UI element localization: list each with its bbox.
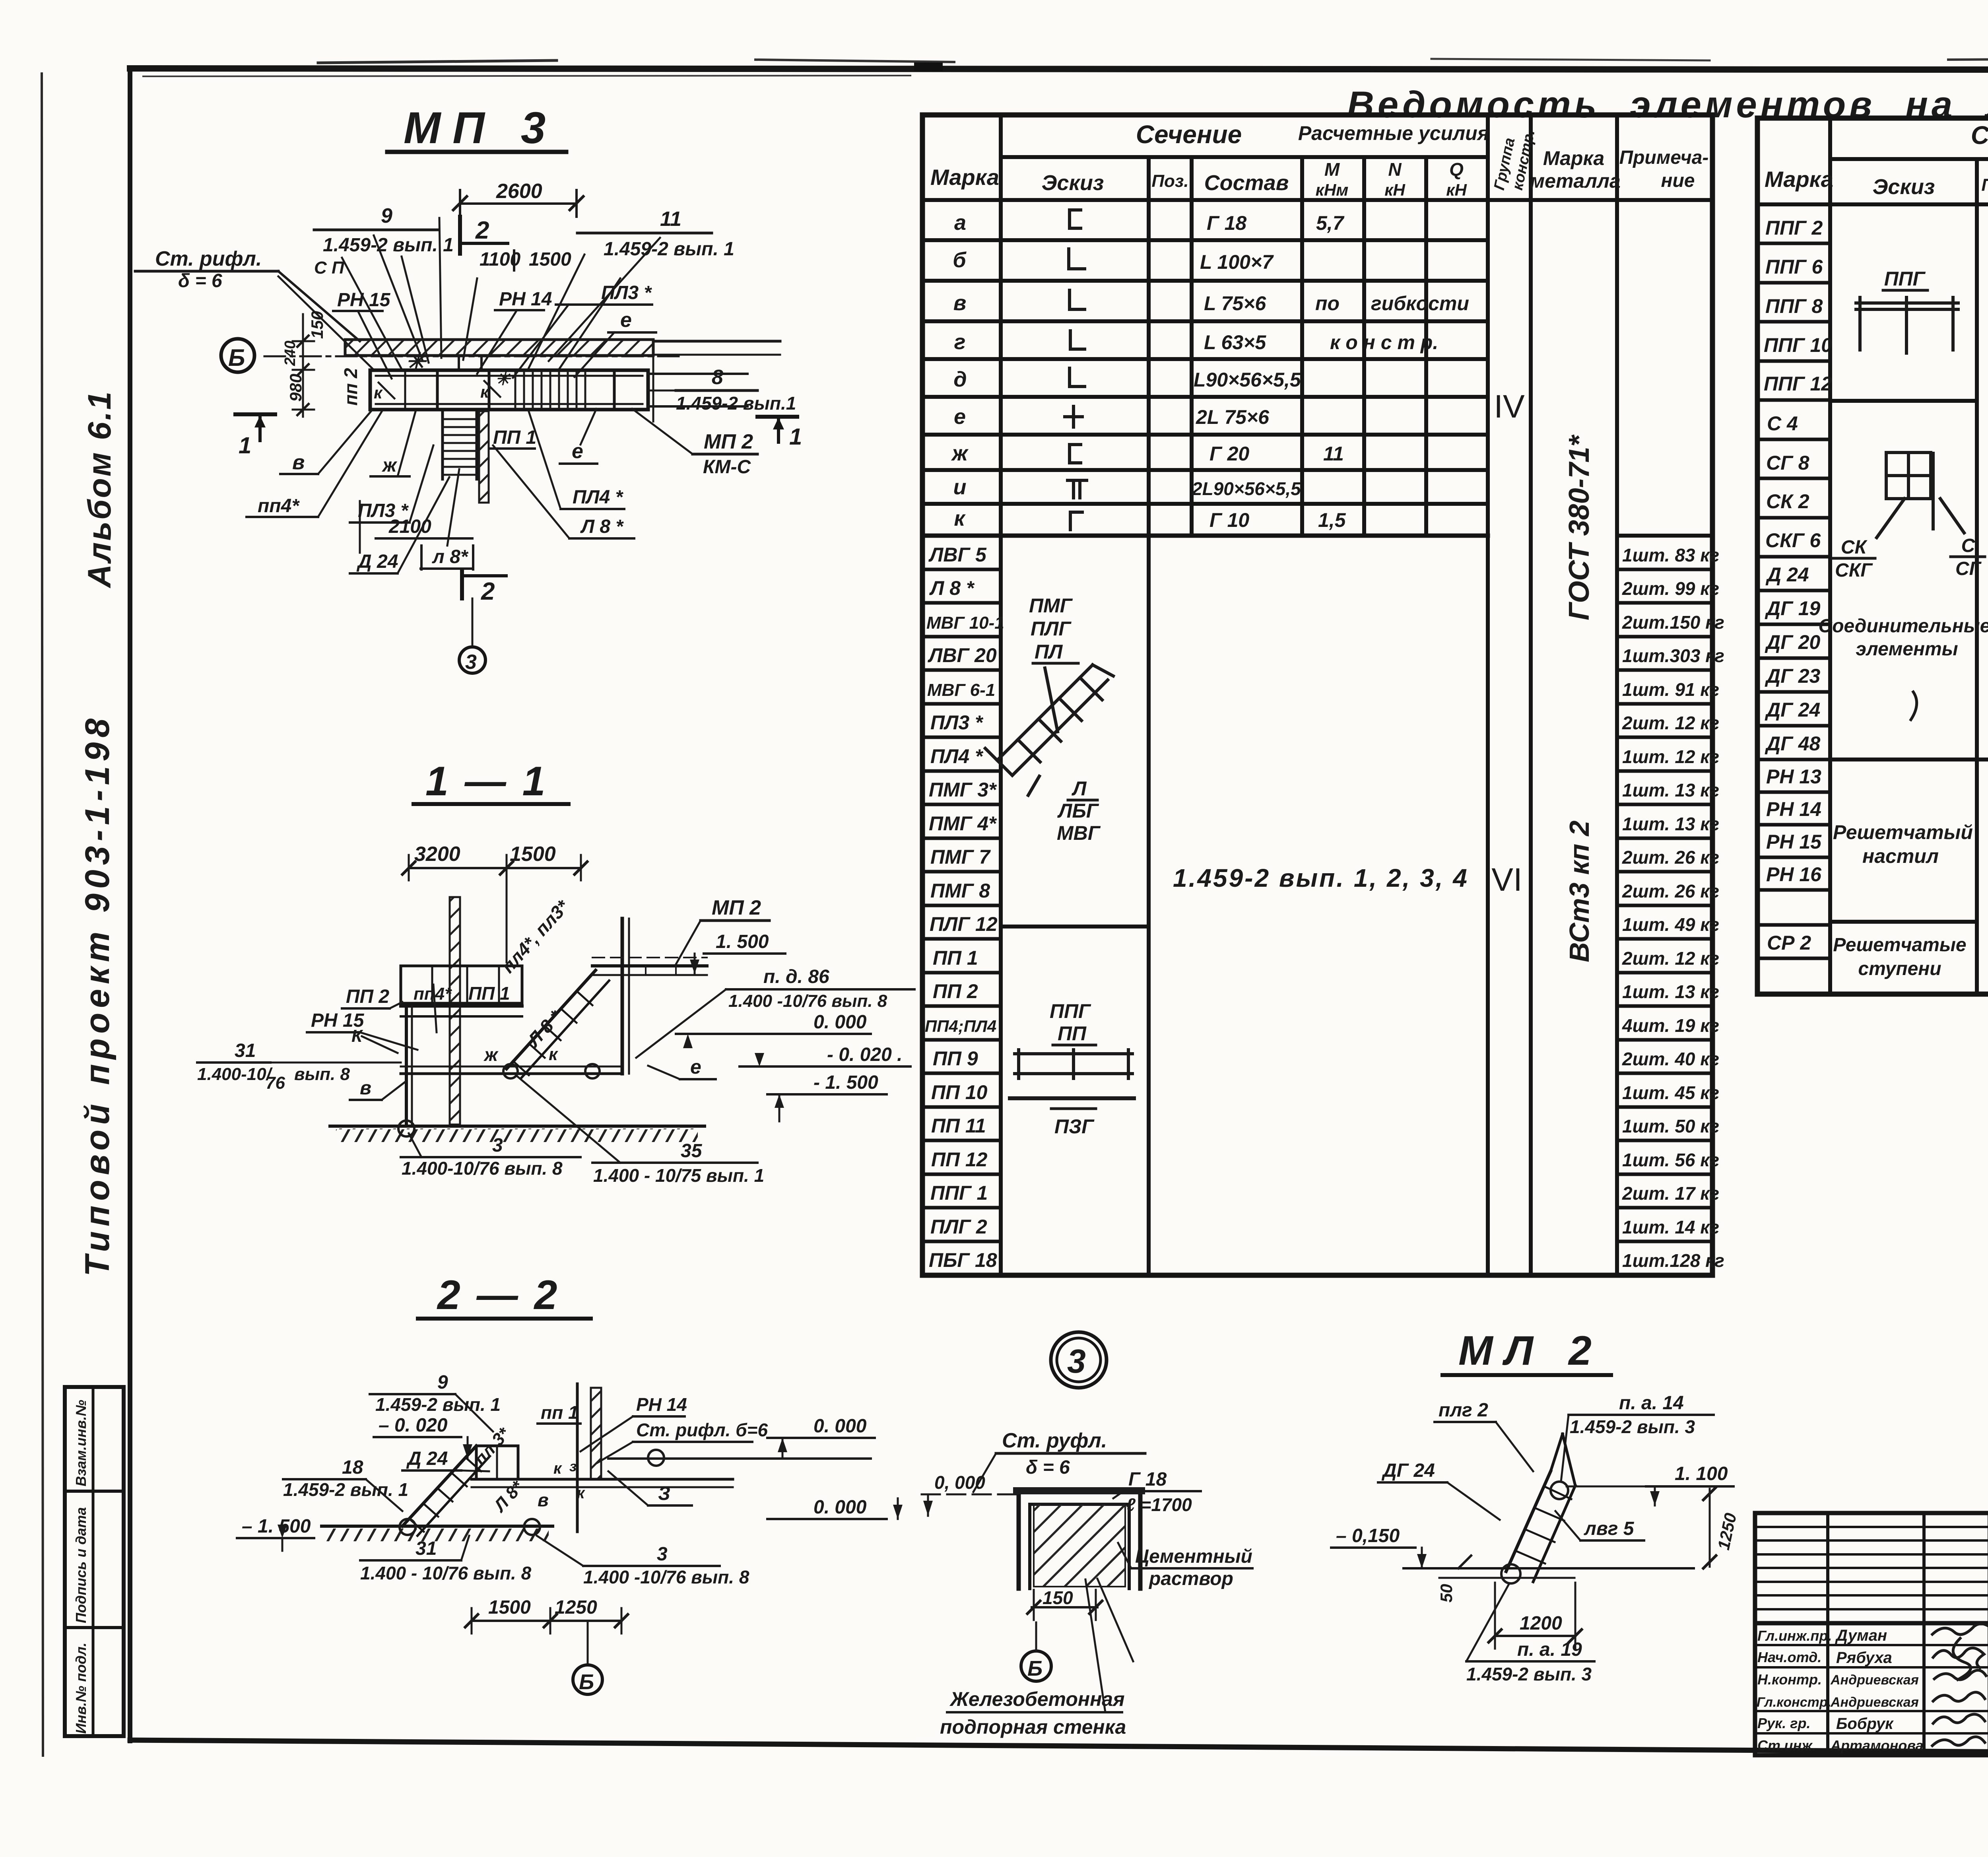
svg-text:вып. 8: вып. 8 [294,1064,350,1084]
s11 ground line [330,1125,705,1128]
svg-text:ДГ 23: ДГ 23 [1765,665,1820,687]
svg-text:L 100×7: L 100×7 [1200,251,1274,273]
MP3 band notch box [459,357,481,371]
svg-text:З: З [658,1483,670,1504]
svg-text:настил: настил [1862,845,1939,867]
svg-text:ПМГ 8: ПМГ 8 [930,880,990,902]
sheet frame bottom border [130,1740,1988,1755]
svg-text:Поз.: Поз. [1151,171,1188,191]
svg-text:ЛВГ 20: ЛВГ 20 [928,644,997,666]
ML2 base line [1404,1567,1694,1570]
svg-text:Рябуха: Рябуха [1836,1649,1892,1667]
svg-text:ДГ 48: ДГ 48 [1765,732,1820,755]
titleblock thin rows left [1755,1527,1988,1733]
svg-text:ПП 2: ПП 2 [346,986,389,1007]
svg-text:ПЛ3 *: ПЛ3 * [930,711,984,734]
detail B top plate thick [1013,1487,1145,1494]
svg-text:СГ 8: СГ 8 [1766,452,1809,474]
table2 marka column row lines [1757,243,1830,958]
svg-text:VI: VI [1491,862,1522,898]
svg-text:50: 50 [1437,1584,1456,1603]
svg-text:Инв.№ подл.: Инв.№ подл. [73,1643,89,1734]
svg-text:3: 3 [1067,1342,1086,1380]
svg-text:1200: 1200 [1520,1613,1562,1634]
titleblock signatures [1932,1624,1988,1746]
svg-text:ППГ 12: ППГ 12 [1764,373,1832,395]
detail B circle B [1021,1651,1051,1681]
MP3 axis circle B [221,339,254,372]
svg-text:ПБГ 18: ПБГ 18 [929,1249,997,1271]
svg-text:2шт. 26 кг: 2шт. 26 кг [1622,881,1719,901]
svg-text:МВГ: МВГ [1057,822,1101,844]
svg-text:по: по [1315,292,1340,315]
svg-text:ППГ: ППГ [1050,1000,1091,1022]
table2 sketch SK square [1877,453,1964,538]
svg-text:в: в [538,1490,549,1510]
svg-text:Рук. гр.: Рук. гр. [1757,1715,1811,1731]
svg-text:б: б [953,248,967,272]
svg-text:✳: ✳ [495,369,511,389]
svg-text:8: 8 [712,366,723,389]
svg-text:Взам.инв.№: Взам.инв.№ [73,1400,89,1486]
svg-text:2100: 2100 [388,516,431,537]
svg-text:Бобрук: Бобрук [1836,1715,1894,1733]
svg-text:Марка: Марка [1765,167,1833,192]
svg-text:3: 3 [657,1544,668,1565]
MP3 platform right extension [648,373,747,375]
svg-text:РН 14: РН 14 [499,289,552,310]
svg-text:ПП 1: ПП 1 [493,427,536,448]
svg-text:п. а. 14: п. а. 14 [1619,1393,1684,1414]
svg-text:Л: Л [1072,777,1087,800]
svg-text:Решетчатые: Решетчатые [1833,934,1966,956]
svg-text:2шт. 40 кг: 2шт. 40 кг [1622,1049,1719,1069]
svg-text:1шт. 13 кг: 1шт. 13 кг [1622,814,1719,834]
svg-text:СКГ 6: СКГ 6 [1765,529,1821,552]
titleblock signer role labels [1757,1628,1832,1754]
MP3 axis circle 3 [472,598,474,647]
svg-text:к: к [553,1460,562,1477]
MP3 stair treads plan [515,372,585,408]
svg-text:ДГ 24: ДГ 24 [1765,699,1820,721]
svg-text:РН 14: РН 14 [1766,798,1821,820]
svg-text:к: к [549,1045,559,1064]
svg-text:150: 150 [308,311,326,339]
table1 usiliya values [1315,212,1469,531]
svg-text:– 0. 020: – 0. 020 [379,1415,448,1436]
svg-text:0. 000: 0. 000 [813,1416,867,1437]
svg-text:1шт. 13 кг: 1шт. 13 кг [1622,780,1719,800]
svg-text:L 75×6: L 75×6 [1204,292,1266,315]
table1 sostav column texts [1192,212,1301,531]
svg-text:л 8*: л 8* [432,546,469,567]
svg-text:пп4*: пп4* [258,495,300,517]
svg-text:Г 10: Г 10 [1209,509,1249,531]
svg-text:СК: СК [1841,537,1868,558]
svg-text:1шт. 49 кг: 1шт. 49 кг [1622,914,1719,935]
svg-text:подпорная стенка: подпорная стенка [940,1716,1126,1738]
svg-text:1.459-2 вып. 3: 1.459-2 вып. 3 [1466,1664,1592,1684]
table2 marka labels [1764,217,1832,954]
svg-text:3: 3 [492,1135,503,1156]
svg-text:5,7: 5,7 [1316,212,1345,234]
svg-text:1.459-2 вып. 1, 2, 3, 4: 1.459-2 вып. 1, 2, 3, 4 [1173,864,1469,892]
table1 lower marka labels [925,544,1004,1271]
svg-text:2L90×56×5,5: 2L90×56×5,5 [1192,478,1301,499]
svg-text:кНм: кНм [1316,181,1349,199]
svg-text:ППГ 8: ППГ 8 [1765,295,1823,317]
svg-text:2шт. 12 кг: 2шт. 12 кг [1622,713,1719,733]
svg-text:ПМГ 3*: ПМГ 3* [929,779,997,801]
left bottom stamp table [65,1387,124,1736]
svg-text:Артамонова: Артамонова [1830,1737,1924,1754]
svg-text:0. 000: 0. 000 [813,1497,867,1518]
svg-text:11: 11 [660,208,681,231]
svg-text:Г 18: Г 18 [1207,212,1246,234]
svg-text:Марка: Марка [930,165,999,190]
s22 stair diagonal band [402,1446,490,1536]
svg-text:ПП 2: ПП 2 [933,980,978,1002]
svg-text:РН 13: РН 13 [1766,765,1821,788]
sheet frame top border [130,68,1988,70]
svg-text:раствор: раствор [1148,1568,1233,1589]
svg-text:Д 24: Д 24 [406,1448,448,1469]
titleblock signer names [1830,1627,1924,1754]
MP3 section mark 1 left [235,412,275,416]
svg-text:Подпись и дата: Подпись и дата [73,1507,89,1623]
svg-text:Ст. руфл.: Ст. руфл. [1002,1429,1107,1452]
svg-text:ДГ 19: ДГ 19 [1765,597,1820,620]
svg-text:МП 2: МП 2 [704,430,753,453]
s22 anchor circles [400,1519,415,1535]
svg-text:ж: ж [381,455,398,476]
svg-text:д: д [953,367,967,391]
svg-text:ДГ 24: ДГ 24 [1381,1460,1435,1481]
svg-text:Типовой проект 903-1-198: Типовой проект 903-1-198 [78,714,116,1276]
svg-text:Состав: Состав [1204,171,1289,195]
svg-text:ПП: ПП [1058,1022,1087,1045]
svg-text:к: к [954,507,966,530]
svg-text:ж: ж [951,441,969,465]
sheet frame left border [128,68,132,1741]
svg-text:е: е [620,309,632,332]
svg-text:1шт. 83 кг: 1шт. 83 кг [1622,545,1719,565]
s22 axis circle B [587,1621,589,1665]
svg-text:Д 24: Д 24 [1765,563,1809,586]
svg-text:МП 3: МП 3 [404,103,557,153]
svg-text:ПЛГ 12: ПЛГ 12 [930,913,998,935]
svg-text:Б: Б [579,1670,594,1694]
table1 header labels [930,120,1708,199]
svg-text:ППГ 2: ППГ 2 [1765,217,1823,239]
svg-text:МЛ 2: МЛ 2 [1458,1328,1604,1374]
svg-text:Сечение: Сечение [1136,120,1242,149]
s22 right hatched wall [591,1388,601,1479]
svg-text:1шт. 91 кг: 1шт. 91 кг [1622,679,1719,700]
MP3 axis dash-dot line [264,355,681,357]
svg-text:е: е [954,405,966,429]
svg-text:2L 75×6: 2L 75×6 [1196,406,1270,428]
svg-text:гибкости: гибкости [1371,292,1469,315]
svg-text:1.459-2 вып. 1: 1.459-2 вып. 1 [283,1479,408,1500]
svg-text:2шт. 12 кг: 2шт. 12 кг [1622,948,1719,969]
svg-text:1.459-2 вып. 3: 1.459-2 вып. 3 [1570,1416,1695,1437]
svg-text:ПЛ3 *: ПЛ3 * [601,282,652,303]
svg-text:0, 000: 0, 000 [934,1472,985,1493]
svg-text:1.400 -10/76 вып. 8: 1.400 -10/76 вып. 8 [583,1567,749,1587]
table1 sketch platform drawing [1010,1050,1134,1098]
svg-text:ПМГ 4*: ПМГ 4* [929,812,997,835]
svg-text:Думан: Думан [1835,1627,1887,1644]
svg-text:и: и [953,475,967,499]
MP3 band extension lines [653,340,780,343]
svg-text:Б: Б [1027,1657,1043,1680]
svg-text:1шт. 14 кг: 1шт. 14 кг [1622,1217,1719,1237]
svg-text:L 63×5: L 63×5 [1204,331,1266,354]
svg-text:Расчетные усилия: Расчетные усилия [1298,122,1489,144]
table1 grid [922,115,1712,1275]
svg-text:ПП 11: ПП 11 [931,1115,986,1137]
svg-text:1500: 1500 [529,249,571,270]
svg-text:ППГ 6: ППГ 6 [1765,256,1823,278]
MP3 section mark 2 bottom [460,572,464,598]
svg-text:Q: Q [1449,159,1464,180]
svg-text:31: 31 [415,1538,437,1559]
table1 sketch diagonal ladder [985,665,1113,795]
svg-text:2шт.150 кг: 2шт.150 кг [1622,612,1724,633]
node circle 3 double [1051,1332,1107,1388]
svg-text:- 1. 500: - 1. 500 [813,1072,878,1093]
svg-text:ПЛГ 2: ПЛГ 2 [930,1216,987,1238]
svg-text:п. д. 86: п. д. 86 [763,966,829,987]
svg-text:240: 240 [282,341,299,366]
svg-text:Ст. рифл. б=6: Ст. рифл. б=6 [636,1420,768,1440]
svg-text:з: з [569,1458,577,1474]
svg-text:Нач.отд.: Нач.отд. [1757,1649,1821,1665]
svg-text:150: 150 [1043,1587,1073,1608]
svg-text:1. 500: 1. 500 [716,931,769,952]
s11 left deck beams [401,1004,522,1008]
svg-text:1шт. 13 кг: 1шт. 13 кг [1622,981,1719,1002]
svg-text:РН 14: РН 14 [636,1394,687,1415]
svg-text:ПП 12: ПП 12 [931,1148,988,1171]
svg-text:Г 18: Г 18 [1128,1469,1167,1490]
svg-text:1.459-2 вып.1: 1.459-2 вып.1 [676,393,796,414]
svg-text:лвг 5: лвг 5 [1584,1518,1635,1539]
svg-text:1шт. 45 кг: 1шт. 45 кг [1622,1082,1719,1103]
table1 sketch platform labels [1050,1000,1095,1138]
svg-text:С: С [1961,535,1976,556]
svg-text:δ = 6: δ = 6 [178,270,222,291]
svg-text:- 0. 020 .: - 0. 020 . [827,1044,902,1065]
svg-text:L90×56×5,5: L90×56×5,5 [1194,369,1301,391]
left margin thin line [42,74,43,1756]
svg-text:ж: ж [483,1044,499,1065]
table1 upper marka letters [951,211,969,530]
MP3 hatched wall below [479,411,489,503]
svg-text:ПП 9: ПП 9 [933,1047,978,1070]
svg-text:1. 100: 1. 100 [1675,1463,1728,1484]
svg-text:а: а [954,211,966,235]
svg-text:Марка: Марка [1543,147,1604,169]
svg-text:1.400 -10/76 вып. 8: 1.400 -10/76 вып. 8 [728,991,887,1011]
svg-text:ЛВГ 5: ЛВГ 5 [928,544,987,566]
svg-text:1.400 - 10/75 вып. 1: 1.400 - 10/75 вып. 1 [593,1165,764,1186]
svg-text:С 4: С 4 [1767,412,1798,435]
s11 floor line mid [401,1072,622,1075]
svg-text:элементы: элементы [1856,639,1958,660]
svg-text:в: в [953,291,967,315]
svg-text:ПЛ4 *: ПЛ4 * [573,487,624,508]
svg-text:1шт. 12 кг: 1шт. 12 кг [1622,746,1719,767]
svg-text:1: 1 [239,433,251,458]
svg-text:ПМГ 7: ПМГ 7 [930,846,991,868]
s22 ground line [322,1525,553,1528]
svg-text:МВГ 10-1: МВГ 10-1 [926,613,1004,633]
svg-text:МВГ 6-1: МВГ 6-1 [927,680,995,700]
table1 sketch ladder labels [1029,594,1101,844]
table1 marka column row lines [922,569,1001,1241]
svg-text:пп 1: пп 1 [541,1402,579,1423]
svg-text:ПП4;ПЛ4: ПП4;ПЛ4 [925,1017,996,1035]
svg-text:Ст. рифл.: Ст. рифл. [155,247,262,270]
svg-text:ние: ние [1661,170,1695,191]
svg-text:ПЛ4 *: ПЛ4 * [930,745,984,767]
MP3 hatched wall band [345,340,653,355]
table2 grid [1757,118,1988,994]
svg-text:СР 2: СР 2 [1767,932,1811,954]
s11 anchor circles [398,1121,414,1136]
svg-text:1.400-10/: 1.400-10/ [197,1064,273,1084]
svg-text:Гл.констр.: Гл.констр. [1757,1695,1831,1710]
svg-text:Эскиз: Эскиз [1873,175,1935,199]
ML2 stair flight [1506,1434,1575,1582]
svg-text:1шт.303 кг: 1шт.303 кг [1622,645,1724,666]
svg-text:ПМГ: ПМГ [1029,594,1073,617]
svg-text:31: 31 [235,1040,256,1061]
svg-text:2шт. 17 кг: 2шт. 17 кг [1622,1183,1719,1204]
s22 deck line [472,1478,733,1481]
svg-text:1 — 1: 1 — 1 [425,758,547,804]
svg-text:δ = 6: δ = 6 [1026,1457,1070,1478]
svg-text:9: 9 [381,204,392,227]
svg-text:РН 15: РН 15 [1766,831,1822,853]
table1 prim values [1622,545,1724,1271]
svg-text:1,5: 1,5 [1318,509,1346,531]
s11 center hatched column [450,897,460,1125]
svg-text:КМ-С: КМ-С [703,456,751,478]
top border smudges [318,60,557,63]
svg-text:2600: 2600 [496,180,542,203]
svg-text:ППГ: ППГ [1884,268,1926,290]
svg-text:1.459-2 вып. 1: 1.459-2 вып. 1 [375,1394,501,1415]
MP3 platform outline [370,370,648,410]
svg-text:✳: ✳ [406,348,427,375]
svg-text:ПП 1: ПП 1 [933,947,978,969]
svg-text:9: 9 [437,1372,448,1393]
s11 right upper deck [592,964,707,967]
table2 header labels [1765,121,1988,203]
svg-text:ПЗГ: ПЗГ [1054,1115,1095,1138]
svg-text:1шт.128 кг: 1шт.128 кг [1622,1250,1724,1271]
s11 stair diagonal band [507,970,609,1078]
svg-text:1.459-2 вып. 1: 1.459-2 вып. 1 [604,239,734,260]
svg-text:Поз.: Поз. [1981,175,1988,195]
svg-text:пп 2: пп 2 [340,368,361,406]
svg-text:в: в [292,451,305,474]
svg-text:ППГ 1: ППГ 1 [930,1182,988,1204]
MP3 left dim chain [302,314,304,417]
MP3 section mark 1 right [757,415,797,419]
svg-text:п. а. 19: п. а. 19 [1517,1639,1582,1660]
svg-text:Примеча-: Примеча- [1619,147,1709,168]
titleblock main box [1755,1513,1988,1755]
ML2 bottom circle [1501,1564,1520,1583]
svg-text:1: 1 [789,424,802,450]
svg-text:2 — 2: 2 — 2 [437,1272,559,1318]
svg-text:Б: Б [228,344,245,371]
svg-text:кН: кН [1446,181,1467,199]
svg-text:кН: кН [1384,181,1406,199]
s11 right deck grid verticals [645,966,646,975]
s22 top small platform [476,1446,518,1479]
svg-text:Ст.инж.: Ст.инж. [1757,1737,1816,1754]
svg-text:1500: 1500 [488,1597,531,1618]
svg-text:СКГ: СКГ [1835,560,1873,581]
MP3 down ladder treads [443,419,477,475]
svg-text:СК 2: СК 2 [1766,490,1809,513]
svg-text:г: г [954,330,966,354]
svg-text:М: М [1324,159,1340,180]
svg-text:– 0,150: – 0,150 [1336,1525,1400,1546]
svg-text:3: 3 [465,651,477,674]
svg-text:ПП 1: ПП 1 [468,983,510,1004]
svg-text:ВСт3 кп 2: ВСт3 кп 2 [1564,820,1595,962]
table1 prim column row lines [1617,569,1712,1241]
svg-text:2шт. 99 кг: 2шт. 99 кг [1622,578,1719,599]
svg-text:N: N [1388,159,1402,180]
svg-text:Л 8 *: Л 8 * [580,516,624,537]
svg-text:76: 76 [266,1073,285,1093]
svg-text:1.400-10/76 вып. 8: 1.400-10/76 вып. 8 [402,1158,563,1179]
svg-text:ПЛ: ПЛ [1035,641,1063,663]
s11 left platform grid [401,966,522,1003]
svg-text:1.459-2 вып. 1: 1.459-2 вып. 1 [323,235,454,256]
svg-text:плг 2: плг 2 [1439,1400,1488,1421]
svg-text:МП 2: МП 2 [712,896,761,919]
svg-text:Альбом 6.1: Альбом 6.1 [82,390,118,589]
MP3 section mark 2 top [458,217,462,254]
detail B concrete hatch [1034,1504,1125,1587]
svg-text:Гл.инж.пр.: Гл.инж.пр. [1757,1628,1832,1644]
svg-text:Решетчатый: Решетчатый [1833,821,1973,843]
svg-text:0. 000: 0. 000 [813,1012,867,1033]
svg-text:35: 35 [681,1140,703,1162]
svg-text:Цементный: Цементный [1135,1546,1252,1567]
svg-text:18: 18 [342,1457,363,1478]
svg-text:Железобетонная: Железобетонная [949,1688,1125,1710]
s11 left posts [405,1006,408,1126]
svg-text:в: в [360,1078,371,1099]
svg-text:IV: IV [1494,388,1525,425]
svg-text:е: е [690,1056,701,1078]
svg-text:4шт. 19 кг: 4шт. 19 кг [1622,1015,1719,1036]
svg-text:11: 11 [1323,443,1344,465]
svg-text:Г 20: Г 20 [1209,443,1249,465]
svg-text:ПЛГ: ПЛГ [1031,618,1072,640]
svg-text:ℓ =1700: ℓ =1700 [1126,1494,1192,1515]
svg-text:ПП 10: ПП 10 [931,1081,988,1103]
